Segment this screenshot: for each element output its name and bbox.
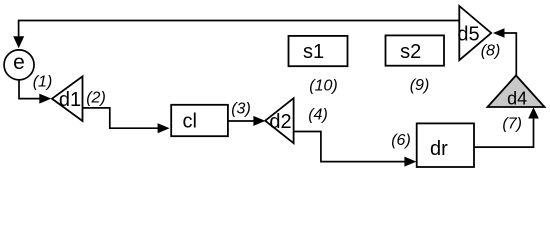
block dr: [417, 123, 474, 167]
svg-text:(8): (8): [481, 42, 501, 59]
wire: d2 to dr: [294, 132, 405, 162]
block s2: [386, 35, 445, 65]
svg-text:(6): (6): [391, 132, 411, 149]
wire: d4 to d5: [504, 33, 516, 75]
amplifier d2 (triangle, apex left): [265, 98, 293, 143]
svg-text:(7): (7): [502, 115, 522, 132]
amplifier d5 (triangle, apex right): [459, 6, 491, 60]
svg-text:(10): (10): [309, 77, 337, 94]
amplifier d4 (gray triangle, apex up): [488, 75, 545, 107]
wire: cl to d2: [228, 120, 255, 122]
svg-text:s1: s1: [303, 41, 324, 63]
wire: top feedback d5 output to e: [19, 21, 460, 38]
svg-text:dr: dr: [430, 138, 448, 160]
amplifier d1 (triangle, apex left): [52, 76, 83, 121]
svg-text:(4): (4): [308, 106, 328, 123]
svg-text:d2: d2: [269, 111, 291, 133]
arrowhead into d1 (right): [39, 94, 51, 104]
svg-text:d1: d1: [59, 89, 81, 111]
svg-text:(3): (3): [231, 100, 251, 117]
node e (circle): [4, 50, 34, 80]
svg-text:(2): (2): [86, 90, 106, 107]
arrowhead into d5 (left): [493, 28, 505, 38]
block cl: [171, 105, 228, 136]
arrowhead into e (down): [13, 36, 24, 48]
wire: dr to d4: [474, 118, 534, 147]
svg-text:d5: d5: [457, 23, 479, 45]
block s1: [289, 36, 348, 66]
svg-text:d4: d4: [507, 89, 527, 109]
arrowhead into cl (right): [158, 123, 170, 133]
svg-text:cl: cl: [182, 111, 196, 133]
svg-text:(1): (1): [33, 74, 53, 91]
wire: e to d1: [19, 80, 41, 98]
arrowhead into d4 (up): [528, 107, 539, 118]
svg-text:e: e: [13, 51, 25, 74]
svg-text:s2: s2: [400, 41, 421, 63]
arrowhead into d2 (right): [253, 116, 265, 126]
arrowhead into dr (right): [404, 157, 416, 167]
wire: d1 to cl: [83, 108, 159, 128]
svg-text:(9): (9): [410, 77, 430, 94]
